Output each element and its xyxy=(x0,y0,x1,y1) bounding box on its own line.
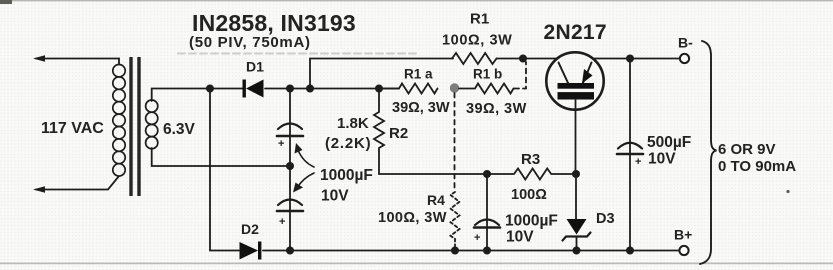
label R2 value (2.2K) xyxy=(325,135,371,152)
label R4 xyxy=(427,192,445,208)
label C4 10V xyxy=(648,151,676,168)
subtitle (50 PIV, 750mA) xyxy=(189,34,311,51)
resistor R3 xyxy=(487,169,576,180)
transistor Q1 2N217 circle xyxy=(546,52,603,109)
label 6 OR 9V xyxy=(718,141,776,158)
wire top rail left xyxy=(310,58,453,60)
output brace xyxy=(700,41,717,264)
node junction R2 / R1a xyxy=(375,85,383,93)
label R1 value xyxy=(442,33,512,49)
arrowhead bottom lead xyxy=(33,186,45,193)
label R3 value xyxy=(511,187,547,203)
wire D1 cathode rail xyxy=(265,88,399,90)
wire R1 to transistor xyxy=(497,58,558,60)
wire base down xyxy=(575,100,577,175)
svg-text:39Ω, 3W: 39Ω, 3W xyxy=(392,100,450,116)
label 6.3V xyxy=(163,121,196,138)
node junction cap2 top xyxy=(483,170,491,178)
label R2 value 1.8K xyxy=(337,115,369,132)
wire secondary top to rail xyxy=(152,89,243,102)
svg-text:6 OR 9V: 6 OR 9V xyxy=(718,141,776,158)
wire drop to D2 xyxy=(210,89,239,251)
diode D1 xyxy=(243,80,264,98)
transformer T1 secondary winding xyxy=(146,100,158,149)
arrow to C1 xyxy=(295,143,315,167)
capacitor C2 lower 1000uF xyxy=(278,200,302,206)
svg-text:R1 a: R1 a xyxy=(404,67,433,82)
label R2 xyxy=(389,125,408,142)
node junction 500uF top xyxy=(626,55,634,63)
label D2 xyxy=(241,221,259,237)
wire dashed R1b to top rail xyxy=(514,62,526,89)
wire mid row xyxy=(379,173,487,175)
plus sign C4 xyxy=(635,156,641,168)
label 500uF xyxy=(647,134,691,151)
label R1b value xyxy=(466,101,527,117)
svg-text:R1: R1 xyxy=(470,11,489,28)
capacitor C4 500uF 10V xyxy=(629,59,631,154)
node junction R1b tap on rail xyxy=(519,55,527,63)
svg-text:6.3V: 6.3V xyxy=(163,121,196,138)
terminal B- xyxy=(680,54,689,63)
label R1a xyxy=(404,67,433,82)
capacitor C1 upper 1000uF: wire, curved plate, straight plate xyxy=(289,89,291,136)
diode D2 xyxy=(240,242,262,260)
wire D3 branch xyxy=(575,174,577,219)
svg-text:D2: D2 xyxy=(241,221,259,237)
svg-text:R3: R3 xyxy=(521,151,540,168)
svg-text:+: + xyxy=(279,216,285,228)
node junction bottom cap string xyxy=(286,247,294,255)
svg-text:(50 PIV, 750mA): (50 PIV, 750mA) xyxy=(189,34,311,51)
arrowhead top lead xyxy=(33,55,45,62)
svg-text:(2.2K): (2.2K) xyxy=(325,135,371,152)
svg-text:1.8K: 1.8K xyxy=(337,115,369,132)
label R4 value xyxy=(378,210,447,226)
svg-text:117 VAC: 117 VAC xyxy=(41,120,104,137)
label R3 xyxy=(521,151,540,168)
svg-text:1000µF: 1000µF xyxy=(320,167,373,184)
resistor R4 (dashed) xyxy=(451,192,460,248)
svg-text:2N217: 2N217 xyxy=(544,21,607,44)
wire dashed wiper from tap xyxy=(454,93,456,192)
transistor emitter lead with arrow xyxy=(582,63,593,85)
capacitor C3 1000uF 10V: wire and plates xyxy=(486,174,488,227)
label D3 xyxy=(596,211,615,227)
svg-text:D3: D3 xyxy=(596,211,615,227)
wire secondary bottom xyxy=(152,148,290,166)
svg-text:+: + xyxy=(635,156,641,168)
svg-text:B+: B+ xyxy=(674,227,692,243)
node junction base / D3 xyxy=(572,170,580,178)
terminal B+ xyxy=(679,246,688,255)
node tap (gray) between R1a and R1b xyxy=(450,83,459,92)
title IN2858, IN3193 xyxy=(192,10,356,36)
zener diode D3 xyxy=(567,219,587,235)
label R1 xyxy=(470,11,489,28)
node junction bottom 500uF xyxy=(626,247,634,255)
svg-text:IN2858, IN3193: IN2858, IN3193 xyxy=(192,10,356,36)
node junction bottom cap2 xyxy=(483,247,491,255)
label D1 xyxy=(246,59,264,75)
wire riser to top rail xyxy=(309,59,311,89)
label 0 TO 90mA xyxy=(718,158,796,175)
wire primary top lead xyxy=(36,59,119,65)
label R1a value xyxy=(392,100,450,116)
resistor R1b xyxy=(459,84,514,94)
label R1b xyxy=(473,67,502,82)
transistor base bar xyxy=(558,83,595,100)
resistor R1 xyxy=(452,53,496,64)
node junction bottom D3 xyxy=(573,247,581,255)
node junction bottom R4 xyxy=(451,247,459,255)
svg-text:0 TO 90mA: 0 TO 90mA xyxy=(718,158,796,175)
label 1000uF 10V with arrows xyxy=(320,167,373,184)
wire primary bottom lead xyxy=(36,176,119,189)
node junction secondary rail / D2 drop xyxy=(206,85,214,93)
svg-text:500µF: 500µF xyxy=(647,134,691,151)
wire bottom rail xyxy=(263,250,680,252)
svg-text:100Ω: 100Ω xyxy=(511,187,547,203)
transistor collector lead xyxy=(559,63,569,85)
plus sign C1 xyxy=(278,138,284,150)
node junction cap string top xyxy=(286,85,294,93)
svg-text:39Ω, 3W: 39Ω, 3W xyxy=(466,101,527,117)
svg-text:D1: D1 xyxy=(246,59,264,75)
wire top rail right of transistor xyxy=(593,58,681,60)
label C3 1000uF xyxy=(505,213,558,230)
label B+ xyxy=(674,227,692,243)
svg-text:10V: 10V xyxy=(506,229,534,246)
label 117 VAC xyxy=(41,120,104,137)
transformer T1 core xyxy=(129,57,140,196)
svg-text:100Ω, 3W: 100Ω, 3W xyxy=(442,33,512,49)
svg-text:R2: R2 xyxy=(389,125,408,142)
plus sign C2 xyxy=(279,216,285,228)
label B- xyxy=(678,35,693,51)
svg-text:+: + xyxy=(474,232,480,244)
svg-text:10V: 10V xyxy=(321,188,349,205)
svg-text:1000µF: 1000µF xyxy=(505,213,558,230)
svg-text:+: + xyxy=(278,138,284,150)
arrow to C2 xyxy=(293,173,314,193)
svg-text:R4: R4 xyxy=(427,192,445,208)
label 2N217 xyxy=(544,21,607,44)
svg-text:10V: 10V xyxy=(648,151,676,168)
svg-text:R1 b: R1 b xyxy=(473,67,502,82)
label C3 10V xyxy=(506,229,534,246)
node junction riser xyxy=(306,85,314,93)
resistor R1a xyxy=(379,84,438,94)
resistor R2 xyxy=(374,89,384,175)
svg-text:100Ω, 3W: 100Ω, 3W xyxy=(378,210,447,226)
svg-text:B-: B- xyxy=(678,35,693,51)
node junction center tap of caps xyxy=(286,162,294,170)
plus sign C3 xyxy=(474,232,480,244)
transformer T1 primary winding xyxy=(113,65,125,177)
